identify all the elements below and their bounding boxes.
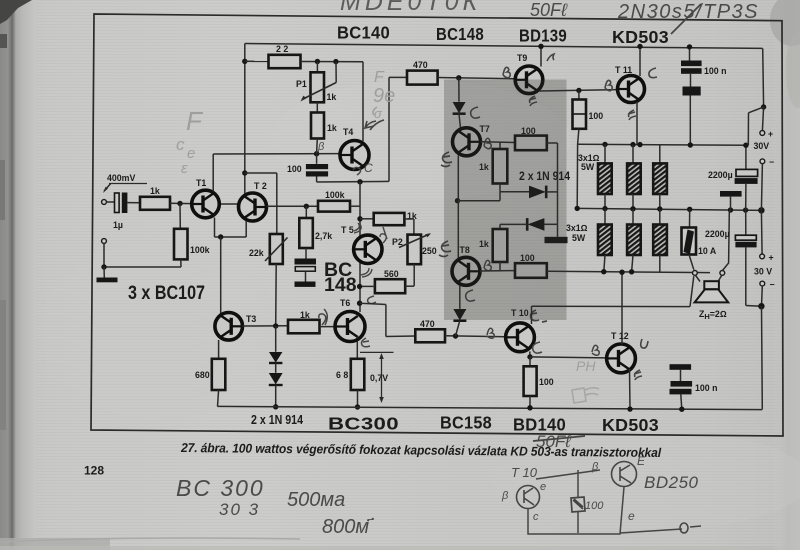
svg-text:1µ: 1µ (113, 220, 123, 230)
svg-text:F: F (374, 69, 385, 86)
resistor 470 top (407, 71, 438, 85)
wire T10 emitter up + output run (531, 306, 533, 324)
sketch wires (528, 470, 682, 534)
wire T1 T2 emitters join (214, 218, 216, 238)
svg-text:РН: РН (576, 358, 596, 374)
resistor 100 T8 (515, 263, 547, 278)
wire right speaker terminal riser (723, 210, 731, 270)
svg-text:C: C (364, 161, 373, 175)
wire T9 emitter to T11 base (540, 90, 619, 91)
resistor 68 (356, 342, 358, 359)
trimmer P2 250 (408, 235, 422, 265)
svg-text:BC300: BC300 (328, 414, 399, 434)
svg-text:3x1Ω: 3x1Ω (566, 223, 588, 233)
svg-text:MDE0Т0К: MDE0Т0К (340, 0, 481, 16)
transistor T11 (618, 76, 645, 103)
trimmer 22k (270, 234, 283, 264)
speaker (696, 275, 701, 281)
wire T6 collector to 470b (360, 303, 386, 304)
wire to 22k top (245, 172, 277, 174)
svg-text:β: β (501, 490, 509, 502)
node T11 rail (637, 44, 642, 49)
capacitor 2200u lower (745, 210, 747, 235)
sketch transistor BD250 (612, 462, 637, 487)
svg-text:T 12: T 12 (611, 331, 629, 341)
svg-text:800м҃: 800м҃ (322, 516, 374, 538)
wire down to T3 (220, 237, 222, 314)
resistor R 1k input (140, 197, 170, 210)
wire x577 to mid bus (576, 144, 578, 208)
svg-text:F: F (186, 106, 204, 136)
svg-text:50Fℓ: 50Fℓ (536, 432, 571, 451)
transistor T12 (607, 344, 636, 373)
pen squiggles T5 (353, 167, 361, 175)
wire T2 collector up to rail (244, 44, 246, 194)
svg-text:1k: 1k (327, 92, 337, 102)
node T4 emitter (357, 179, 362, 184)
electrolytic cap + ground bar (295, 259, 317, 265)
node 560 left (357, 284, 362, 289)
wire collector rail to T4 base (213, 153, 340, 155)
node T9 rail (538, 44, 543, 49)
input terminal top (102, 200, 107, 205)
top supply rail (245, 44, 763, 49)
pen E at T6 (362, 338, 371, 347)
wire 22k down to T3 (275, 264, 278, 326)
input terminal bottom (102, 239, 107, 244)
emitter resistors 3x1ohm top row (604, 144, 606, 163)
svg-text:E: E (637, 454, 646, 468)
svg-text:BC140: BC140 (337, 23, 390, 43)
svg-text:T9: T9 (517, 53, 527, 63)
node rail left (242, 59, 247, 64)
svg-text:1k: 1k (150, 186, 160, 196)
wire ground run (104, 266, 181, 268)
node T3 collector (273, 323, 278, 328)
svg-text:30 V: 30 V (754, 267, 772, 277)
pen B at T10 (487, 328, 494, 338)
transistor T3 (215, 313, 243, 341)
trimmer P1 1k (316, 62, 318, 73)
pen E at T10 (531, 310, 547, 322)
pen squiggle 1k (319, 309, 327, 325)
emitter resistors 3x1ohm bottom row (604, 209, 606, 225)
svg-text:T6: T6 (340, 298, 350, 308)
transistor T2 (239, 193, 267, 221)
resistor 1k under P1 (316, 102, 318, 112)
wire +rail distribution y144 (578, 144, 749, 145)
speaker terminals (693, 271, 698, 276)
svg-text:30V: 30V (754, 141, 770, 151)
bottom rail (218, 406, 763, 409)
marker highlight zone (444, 80, 567, 321)
capacitor 100 at T4 base (316, 154, 318, 164)
capacitor C1 1u (115, 193, 120, 213)
node T2 22k junction (242, 170, 247, 175)
svg-text:e: e (540, 481, 546, 493)
svg-text:BC148: BC148 (436, 24, 484, 44)
svg-text:ZH=2Ω: ZH=2Ω (699, 309, 727, 321)
svg-text:T4: T4 (343, 127, 353, 137)
svg-text:2200µ: 2200µ (705, 229, 730, 239)
svg-text:ε: ε (181, 160, 188, 177)
svg-text:β: β (317, 141, 325, 153)
wire R1 to T1 base (170, 202, 192, 204)
wire 470b to T10 base (445, 336, 506, 337)
pen C at T6 (368, 296, 376, 304)
svg-text:BD139: BD139 (519, 26, 567, 46)
svg-text:KD503: KD503 (612, 27, 669, 47)
svg-text:e: e (187, 145, 195, 162)
capacitor 100n top (689, 47, 691, 61)
svg-text:с: с (176, 135, 185, 154)
svg-text:1k: 1k (300, 310, 310, 320)
svg-text:T1: T1 (196, 178, 206, 188)
transistor T10 (506, 323, 535, 352)
svg-text:30 3: 30 3 (219, 500, 260, 519)
spine node mid (455, 198, 460, 203)
pen tick at T9 top (547, 54, 554, 61)
diodes 2x1N914 left (275, 326, 277, 352)
svg-text:KD503: KD503 (602, 415, 659, 435)
wire P2 to 560 (413, 264, 415, 286)
svg-text:2200µ: 2200µ (708, 170, 733, 180)
node ground (101, 264, 106, 269)
ground bar mid (557, 224, 559, 237)
-30V terminal lower (760, 281, 765, 286)
svg-text:P2: P2 (392, 237, 403, 247)
wire T9 collector (540, 46, 542, 66)
svg-text:BD250: BD250 (644, 473, 699, 492)
svg-text:10 A: 10 A (698, 246, 717, 256)
wire T1-T2 bases (219, 203, 239, 205)
wire T12 emitter down (629, 369, 632, 409)
node emitter join (218, 234, 223, 239)
pen E left of T7 (441, 152, 452, 167)
wire T11 emitter down (636, 102, 638, 145)
pen E left of T8 (439, 241, 451, 257)
wire 470 to T9 base (438, 78, 516, 79)
svg-text:22k: 22k (249, 248, 264, 258)
wire R22 to T4 collector drop (301, 61, 364, 63)
pen B at T8 (484, 260, 491, 270)
svg-text:T 5: T 5 (341, 225, 354, 235)
node 100 T9 (576, 88, 581, 93)
wire spine T7-T8 (457, 156, 459, 259)
wire T3 to node (243, 325, 289, 327)
caption text (180, 440, 662, 460)
pen C below D3 (471, 107, 480, 118)
svg-text:−: − (769, 157, 774, 167)
capacitor 2200u upper (745, 145, 747, 169)
svg-text:T3: T3 (246, 314, 256, 324)
schematic border frame (91, 14, 783, 436)
transistor T1 (192, 190, 220, 218)
resistor 680 (218, 340, 220, 359)
resistor 1k T5 collector (360, 218, 374, 220)
svg-text:100 n: 100 n (695, 383, 718, 393)
svg-text:2 x 1N 914: 2 x 1N 914 (251, 413, 303, 427)
wire 100b right to output bus (547, 271, 710, 272)
svg-text:0,7V: 0,7V (370, 373, 388, 383)
sketch resistor 100 (571, 497, 585, 512)
svg-text:250: 250 (422, 246, 437, 256)
pen U at T12 (641, 339, 648, 348)
transistor T9 (515, 66, 543, 94)
capacitor 100n bottom (670, 364, 692, 370)
wire T1 collector up (212, 154, 214, 192)
wire T10 to T12 base (530, 357, 606, 358)
node input base (177, 201, 182, 206)
svg-text:BC158: BC158 (440, 413, 492, 433)
node diode string top (456, 75, 461, 80)
wire emitter row y182 (317, 180, 389, 183)
svg-text:500мa: 500мa (287, 489, 345, 511)
svg-text:100: 100 (287, 164, 302, 174)
svg-text:5W: 5W (581, 162, 595, 172)
svg-text:100: 100 (585, 500, 604, 512)
resistor 100 T10 (529, 357, 531, 366)
svg-text:2,7k: 2,7k (315, 231, 332, 241)
node 68 bottom (355, 404, 360, 409)
pen B at T9 (503, 67, 510, 77)
wire T8 base right (480, 270, 515, 272)
wire C1 to R1 (127, 202, 140, 204)
fuse 10A (689, 209, 691, 227)
svg-text:680: 680 (195, 370, 210, 380)
resistor 2,7k (305, 206, 307, 218)
svg-text:560: 560 (384, 269, 399, 279)
ground bar input (103, 267, 105, 278)
svg-text:3 x BC107: 3 x BC107 (128, 282, 205, 304)
wire T12 collector up (621, 272, 623, 344)
svg-text:1k: 1k (327, 123, 337, 133)
0,7V annotation (360, 351, 394, 353)
pen B at T7 (484, 138, 491, 148)
svg-text:470: 470 (413, 60, 428, 70)
transistor T5 (354, 235, 382, 263)
handwriting slash stroke (671, 4, 701, 34)
pencil squiggle right of 22k (373, 107, 377, 115)
pen B at T12 (592, 345, 599, 355)
wire 100 right down (547, 142, 558, 144)
-30V terminal upper (760, 159, 765, 164)
node diodes bottom (273, 404, 278, 409)
pen E at T12 (634, 370, 642, 380)
resistor 100k feedback (267, 205, 318, 207)
wire input to C1 (106, 201, 114, 203)
svg-text:T 10: T 10 (511, 465, 538, 480)
transistor T7 (453, 128, 481, 156)
sketch terminal (680, 523, 688, 533)
svg-text:100k: 100k (190, 245, 210, 255)
svg-text:−: − (770, 280, 775, 290)
svg-text:+: + (768, 129, 773, 139)
svg-text:148: 148 (324, 274, 357, 296)
node P1 top (315, 59, 320, 64)
svg-text:100k: 100k (325, 190, 345, 200)
svg-text:400mV: 400mV (107, 173, 135, 183)
svg-text:100: 100 (589, 111, 604, 121)
node P1 bottom junction (314, 151, 319, 156)
resistor 100 T7 (515, 136, 547, 151)
svg-text:5W: 5W (572, 233, 586, 243)
riser to speaker (690, 276, 694, 306)
resistor 1k T8 (493, 229, 508, 262)
sketch transistor T10 (517, 486, 540, 509)
wire T11 collector (639, 46, 641, 76)
svg-text:470: 470 (420, 319, 435, 329)
transistor T6 (335, 312, 365, 342)
output bus lower (601, 269, 606, 274)
svg-text:T 2: T 2 (254, 181, 267, 191)
svg-text:2N30ѕ5/ТР3S: 2N30ѕ5/ТР3S (617, 1, 759, 23)
vertical bus x360 (359, 182, 361, 312)
pen C below T8 (466, 290, 475, 301)
node T6 collector (357, 301, 362, 306)
wire 470a feed (388, 77, 390, 181)
pen arrow at T4 (365, 120, 384, 130)
resistor 470 bottom (415, 329, 445, 342)
node T5 1k tap (357, 216, 362, 221)
resistor 1k T6 base (288, 320, 320, 334)
mid output bus (577, 208, 762, 210)
wire node to R22 (245, 60, 269, 62)
svg-text:BC 300: BC 300 (176, 475, 265, 501)
svg-text:50Fℓ: 50Fℓ (530, 0, 568, 20)
transistor T8 (452, 257, 480, 285)
resistor 100 vert (578, 90, 580, 99)
+30V terminal lower (760, 210, 763, 254)
svg-text:100: 100 (539, 377, 554, 387)
resistor 560 (375, 279, 405, 293)
resistor 22 (269, 55, 301, 68)
diode D4 bottom of spine (459, 285, 461, 309)
wire T10 collector (529, 352, 531, 357)
wire T7 base right (481, 141, 516, 144)
svg-text:е: е (628, 509, 635, 523)
resistor 100k input (179, 204, 181, 229)
+30V terminal upper (760, 131, 765, 136)
right inner rail + supply terminals (762, 48, 765, 107)
diode D2 left-pointing (557, 192, 559, 224)
svg-text:с: с (533, 511, 539, 523)
svg-text:128: 128 (84, 464, 104, 478)
pen C at T10 (533, 342, 542, 353)
node mid lower (758, 303, 764, 309)
chassis bar (720, 191, 742, 197)
node 2k7 top (304, 204, 309, 209)
svg-text:2 2: 2 2 (276, 44, 288, 54)
svg-text:6 8: 6 8 (336, 370, 348, 380)
transistor T4 (340, 141, 369, 170)
svg-text:P1: P1 (296, 79, 307, 89)
diode D1 right-pointing (499, 184, 501, 192)
pen E at T9 (529, 96, 537, 106)
svg-text:+: + (769, 253, 774, 263)
svg-text:T 11: T 11 (615, 65, 632, 75)
svg-text:100 n: 100 n (704, 66, 727, 76)
pen C at T11 (649, 68, 657, 78)
node P1 wiper top (333, 59, 338, 64)
pen B at T11 (605, 80, 612, 90)
resistor 1k T7 (499, 142, 501, 149)
node diode spine bottom (453, 333, 458, 338)
svg-text:9е: 9е (373, 85, 395, 107)
pen E at T11 (628, 110, 636, 120)
diode D3 top of spine (458, 78, 460, 102)
